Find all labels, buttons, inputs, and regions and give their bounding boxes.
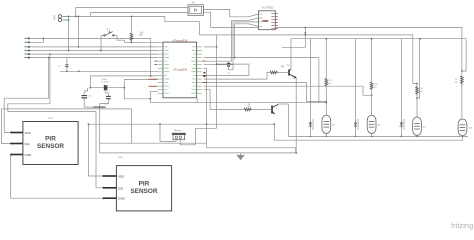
junction (43.4,38.4) bbox=[43, 38, 45, 40]
bus pin end (29,54.1) bbox=[28, 53, 30, 55]
IC U1 pin name marks bbox=[165, 46, 196, 93]
wire cluster gnd rail bbox=[84, 106, 105, 108]
junction (68.6,16.4) bbox=[68, 16, 70, 18]
junction (78.4,46.9) bbox=[78, 46, 80, 48]
junction (124.3,87.7) bbox=[123, 87, 125, 89]
battery B1 bbox=[188, 5, 204, 16]
wire bus left line2 jog up bbox=[29, 38, 43, 42]
bus pin end (29,42.3) bbox=[28, 41, 30, 43]
wire xtal right drop bbox=[124, 88, 150, 99]
wire gnd line y152.9 bbox=[100, 152, 297, 154]
connector J1 2-pin bbox=[58, 15, 61, 22]
wire battery top lead bbox=[76, 7, 188, 9]
transistor T2 bbox=[289, 69, 296, 78]
wire L3 rail y38.7 bbox=[291, 38, 466, 40]
wire col3 R top stub bbox=[416, 84, 418, 87]
junction (88.5,124.2) bbox=[88, 123, 90, 125]
svg-text:Red LED3: Red LED3 bbox=[404, 118, 406, 129]
wire chip gnd stub down bbox=[196, 98, 198, 103]
wire y143 to pir2 col bbox=[100, 142, 207, 144]
junction (68.6,50.5) bbox=[68, 50, 70, 52]
wire LED2 bottom stub bbox=[355, 128, 357, 136]
wire J1 green legs bbox=[63, 16, 68, 20]
wire rail VCC top y27 bbox=[211, 27, 462, 29]
wire chip row13 to T1 base resistor bbox=[204, 90, 244, 110]
junction (160,124.2) bbox=[159, 123, 161, 125]
wire chip row7 down buzzer net bbox=[204, 68, 207, 148]
svg-text:ATmega328: ATmega328 bbox=[173, 39, 188, 43]
diode LED2 bbox=[354, 120, 358, 128]
wire chip row10 to T2 base bbox=[204, 73, 270, 80]
IC U1 ATmega328 bbox=[149, 39, 207, 98]
wire PIR1 SIG net bbox=[2, 108, 132, 110]
ground symbol bbox=[236, 153, 244, 160]
capacitor C3 22pF bbox=[81, 96, 87, 98]
capacitor C2 22pF bbox=[106, 96, 111, 98]
lamp M4 capsule bbox=[458, 119, 467, 136]
svg-text:Red LED2: Red LED2 bbox=[358, 118, 360, 129]
wire vertical x90 up bbox=[90, 12, 92, 16]
wire bus left line4 bbox=[29, 50, 158, 52]
wire reset resistor bottom to chip bbox=[132, 41, 164, 42]
svg-text:SIG: SIG bbox=[118, 186, 124, 190]
svg-text:HC-SR501: HC-SR501 bbox=[262, 7, 274, 10]
svg-text:VDD: VDD bbox=[118, 175, 125, 179]
junction (131.5,42.3) bbox=[131, 41, 133, 43]
junction (326.3,101.5) bbox=[325, 101, 327, 103]
diode LED1 bbox=[308, 120, 312, 128]
resistor R3 bbox=[416, 87, 419, 96]
junction (296.2,152.9) bbox=[295, 152, 297, 154]
PIR2 pin end dots bbox=[103, 175, 105, 177]
switch S1 bbox=[104, 31, 114, 36]
junction dots group bbox=[43, 16, 464, 154]
lamp M2 capsule bbox=[367, 115, 376, 133]
junction (274.3,124.2) bbox=[273, 123, 275, 125]
wire T2 collector riser bbox=[289, 39, 291, 71]
junction (90.4,87.7) bbox=[90, 87, 92, 89]
junction (131.5,16.4) bbox=[131, 16, 133, 18]
junction (417,136.4) bbox=[416, 136, 418, 138]
wire col R1 drop bbox=[325, 39, 327, 79]
module U2 serial bbox=[258, 7, 278, 30]
svg-text:ATmega328: ATmega328 bbox=[173, 67, 187, 71]
junction (48.7,57.6) bbox=[48, 57, 50, 59]
wire cap C1 lead bbox=[66, 58, 68, 64]
diode LED3 bbox=[399, 120, 403, 128]
svg-text:Buzzer: Buzzer bbox=[175, 129, 182, 132]
resistor R4 bbox=[461, 76, 464, 86]
svg-text:GND: GND bbox=[118, 197, 126, 201]
wire L3 right drop bbox=[462, 39, 466, 71]
resistor R1 bbox=[325, 78, 328, 86]
wire lamp M1 bottom stub bbox=[325, 134, 327, 137]
junction (326.3,136.4) bbox=[325, 136, 327, 138]
capacitor C1 100nF bbox=[65, 64, 68, 70]
wire over-chip step bbox=[165, 16, 200, 35]
svg-text:16 MHz: 16 MHz bbox=[101, 81, 109, 83]
svg-text:SIG: SIG bbox=[25, 142, 31, 146]
junction (206.5,124.2) bbox=[206, 123, 208, 125]
wire PIR2 SIG net bbox=[8, 111, 96, 113]
junction (49.9,54.1) bbox=[49, 53, 51, 55]
wire col LED2 drop bbox=[355, 39, 357, 121]
IC U1 outer pin number marks bbox=[149, 61, 207, 87]
resistor R2 bbox=[370, 82, 373, 89]
wire T1 collector drop bbox=[288, 104, 290, 136]
junction (371.6,95.3) bbox=[371, 94, 373, 96]
junction (305.3,32.8) bbox=[304, 32, 306, 34]
wire module pin4 bbox=[235, 24, 259, 27]
wire lamp M3 bottom stub bbox=[416, 135, 418, 136]
PIR sensor 1 bbox=[10, 118, 78, 165]
transistor T1 emitter arrow bbox=[273, 112, 275, 114]
lamp BZ1 capsule bbox=[322, 115, 331, 133]
wire long y124 bbox=[89, 123, 275, 125]
junction (150.7,75.9) bbox=[150, 75, 152, 77]
wire bus left line6 bbox=[29, 57, 158, 59]
svg-text:PWR: PWR bbox=[54, 15, 57, 21]
junction (75.7,16.4) bbox=[75, 16, 77, 18]
wire vertical x76 up to battery lead bbox=[75, 8, 77, 17]
lamp M3 capsule bbox=[413, 117, 422, 135]
capacitor C4 bbox=[227, 63, 230, 66]
wire y71 to chip row8 bbox=[60, 70, 158, 72]
wire xtal heavy drop bbox=[99, 107, 101, 153]
svg-text:PIR: PIR bbox=[45, 136, 56, 143]
wire J1 pin2 stub bbox=[63, 19, 69, 21]
buzzer BZ bbox=[172, 129, 186, 140]
junction (401.4,136.4) bbox=[401, 136, 403, 138]
wire gnd jog right bbox=[207, 148, 296, 153]
wire rail tap x305 bbox=[304, 28, 306, 48]
svg-text:9V: 9V bbox=[192, 1, 195, 4]
wire reset pullup riser bbox=[131, 16, 133, 33]
wire col4 drop from rail bbox=[461, 28, 463, 77]
junction (101,50.5) bbox=[100, 50, 102, 52]
bus endpoint dots left bbox=[28, 37, 30, 58]
wire PIR1 VDD feed bbox=[4, 97, 49, 99]
wire bus left line1 bbox=[29, 37, 151, 39]
resistor R7 1k T2 base bbox=[270, 71, 289, 74]
junction (417,83.5) bbox=[416, 83, 418, 85]
resistor R6 1k T1 base bbox=[244, 108, 272, 111]
wire LED1 bottom stub bbox=[309, 128, 311, 136]
wire lamp M4 bottom stub bbox=[462, 136, 464, 141]
wire PIR2 VDD riser bbox=[89, 124, 105, 176]
wire buzzer left leg bbox=[160, 124, 176, 141]
junction (234.6,57.6) bbox=[234, 57, 236, 59]
PIR sensor 2 bbox=[103, 157, 172, 211]
wire col R2 drop bbox=[371, 39, 373, 82]
crystal X1 bbox=[104, 85, 106, 91]
PIR1 pin end dots bbox=[10, 132, 12, 134]
wire J1 pin1 long net bbox=[63, 15, 165, 17]
svg-text:VDD: VDD bbox=[25, 131, 32, 135]
junction (204.5,72.8) bbox=[204, 72, 206, 74]
wire col LED1 drop bbox=[309, 39, 311, 121]
svg-text:SENSOR: SENSOR bbox=[131, 188, 158, 195]
bus pin end (29,46.9) bbox=[28, 46, 30, 48]
wire rail bottom2 bbox=[274, 139, 462, 141]
wire module pin2 bbox=[231, 18, 258, 20]
svg-text:PIR2: PIR2 bbox=[118, 157, 124, 159]
wire battery right leadA bbox=[204, 9, 259, 16]
wire chip row11 to capsule1 top bbox=[204, 83, 327, 102]
wire switch left drop bbox=[101, 35, 104, 37]
wire buzzer right loop bbox=[180, 128, 195, 145]
wire L2 drop to col3 bbox=[413, 35, 417, 84]
junction (326.3,38.7) bbox=[325, 38, 327, 40]
cluster rail thick bbox=[94, 106, 106, 108]
wire switch right jog bbox=[114, 36, 132, 43]
junction (66.9,71.3) bbox=[66, 70, 68, 72]
wire xtal2 riser to chip row10 bbox=[124, 79, 158, 87]
wire T2 emitter drop bbox=[295, 78, 297, 153]
svg-text:PIR1: PIR1 bbox=[48, 118, 54, 120]
svg-text:SENSOR: SENSOR bbox=[37, 143, 64, 150]
junction (78.4,16.4) bbox=[78, 16, 80, 18]
svg-text:GND: GND bbox=[25, 153, 33, 157]
junction (305.3,34.9) bbox=[304, 34, 306, 36]
svg-text:fritzing: fritzing bbox=[451, 221, 473, 230]
bus pin labels left bbox=[25, 38, 29, 58]
wire lamp M2 bottom stub bbox=[371, 134, 373, 137]
wire module pin3 bbox=[233, 21, 258, 23]
wire R1 to lamp1 bbox=[325, 87, 327, 116]
wire battery second lead bbox=[91, 11, 188, 13]
resistor R5 10k reset pullup bbox=[130, 33, 133, 41]
wire rail bottom1 bbox=[289, 135, 469, 137]
wire vertical x68 down to bus bbox=[68, 16, 70, 50]
junction (371.6,38.7) bbox=[371, 38, 373, 40]
wire T1 emitter drop bbox=[273, 124, 275, 140]
wire bus left line3 reset net bbox=[29, 46, 158, 48]
junction (150.3,98.8) bbox=[149, 98, 151, 100]
wire PIR1 GND down bbox=[9, 155, 11, 199]
wire col3 top drop bbox=[417, 39, 420, 98]
junction (417,98) bbox=[416, 97, 418, 99]
junction (461.9,71) bbox=[461, 70, 463, 72]
wire chip row4 to col1 feed bbox=[204, 57, 319, 59]
svg-text:PIR: PIR bbox=[139, 181, 150, 188]
junction (326.3,102.7) bbox=[325, 102, 327, 104]
junction (462.5,136.4) bbox=[462, 136, 464, 138]
wire bus left line5 bbox=[29, 53, 158, 55]
junction (355.5,136.4) bbox=[355, 136, 357, 138]
junction (305.3,27.5) bbox=[304, 27, 306, 29]
wire xtal1 riser to chip row9 bbox=[90, 76, 157, 88]
wire LED3 bottom stub bbox=[400, 128, 402, 136]
svg-text:Red LED1: Red LED1 bbox=[313, 118, 315, 129]
wire long y102.7 bbox=[150, 102, 326, 104]
wire L2 rail y34.9 bbox=[200, 34, 413, 36]
transistor T1 bbox=[272, 104, 289, 114]
wire col LED3 drop bbox=[400, 39, 402, 121]
wire xtal feed riser bbox=[150, 38, 152, 76]
junction (68.6,20) bbox=[68, 19, 70, 21]
junction (216.5,64.1) bbox=[216, 63, 218, 65]
wire vertical x78 down to bus bbox=[77, 16, 79, 47]
junction (78.8,71.3) bbox=[78, 70, 80, 72]
junction (420.3,38.7) bbox=[419, 38, 421, 40]
wire crystal node line bbox=[90, 87, 124, 89]
wire buzzer right net riser bbox=[216, 35, 218, 128]
bus pin end (29,57.6) bbox=[28, 57, 30, 59]
bus pin end (29,38.4) bbox=[28, 37, 30, 39]
wire chip row1 right stub bbox=[204, 46, 217, 48]
bus pin end (29,50.5) bbox=[28, 50, 30, 52]
wire battery right leadB to rail bbox=[204, 12, 211, 27]
wire chip row12 to col2 feed bbox=[204, 86, 372, 95]
wire chip row9 loop bbox=[204, 64, 249, 75]
wire GND link to PIR2 bbox=[10, 197, 104, 199]
junction (310.4,136.4) bbox=[310, 136, 312, 138]
transistor T2 emitter arrow bbox=[294, 76, 296, 79]
junction (216.5,46.9) bbox=[216, 46, 218, 48]
junction (371.6,136.4) bbox=[371, 136, 373, 138]
